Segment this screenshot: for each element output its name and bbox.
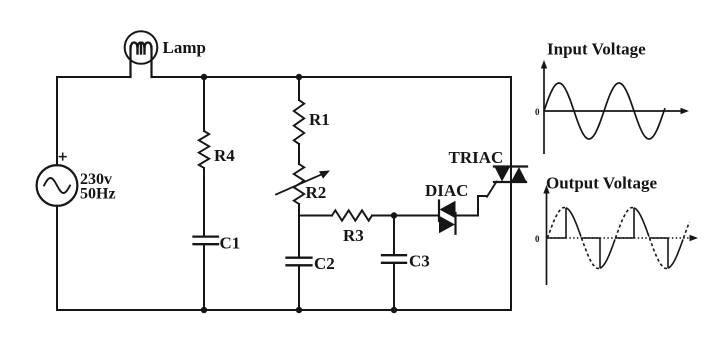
node bottom rail / C1 [201, 307, 207, 313]
output graph y-axis [546, 189, 548, 285]
svg-text:C2: C2 [314, 254, 335, 273]
wire R2 node to R3 [299, 215, 332, 217]
wire R2 to C2 node [298, 204, 300, 258]
svg-text:0: 0 [535, 234, 540, 244]
node bottom rail / C2 [296, 307, 302, 313]
svg-text:C3: C3 [409, 252, 430, 271]
svg-text:Output Voltage: Output Voltage [546, 174, 657, 193]
wire top rail left [57, 76, 131, 78]
wire right vertical (TRIAC branch) [510, 77, 512, 310]
output reference sine (dashed) [548, 208, 566, 239]
diac [439, 201, 456, 234]
svg-text:R2: R2 [306, 183, 327, 202]
output zero-level segments [548, 237, 567, 239]
triac [494, 167, 527, 183]
lamp [125, 31, 158, 77]
capacitor C3 [382, 255, 406, 263]
svg-text:C1: C1 [220, 234, 241, 253]
wire C1 bottom lead [203, 244, 205, 310]
svg-text:R1: R1 [309, 110, 330, 129]
svg-text:DIAC: DIAC [425, 181, 468, 200]
wire node to C3 [393, 216, 395, 256]
wire C3 bottom lead [393, 263, 395, 310]
resistor R1 [294, 100, 304, 144]
node bottom rail / C3 [391, 307, 397, 313]
svg-text:50Hz: 50Hz [80, 186, 116, 203]
resistor R3 [332, 210, 372, 220]
svg-text:Lamp: Lamp [163, 38, 206, 57]
svg-text:TRIAC: TRIAC [449, 148, 504, 167]
svg-text:Input Voltage: Input Voltage [547, 40, 646, 59]
output x-axis arrow [690, 235, 699, 241]
output conducting sine (solid) [566, 208, 581, 237]
node top rail / R4 [201, 74, 207, 80]
input sine wave [544, 83, 665, 139]
node top rail / R1 [296, 74, 302, 80]
output firing verticals [565, 208, 567, 238]
capacitor C2 [287, 258, 312, 266]
wire DIAC to gate step [456, 196, 488, 216]
input graph y-axis [543, 64, 545, 154]
wire R1 to R2 [298, 144, 300, 164]
wire R4 to C1 [203, 168, 205, 236]
wire left vertical lower [56, 206, 58, 310]
wire bottom rail [57, 309, 511, 311]
wire R3 to DIAC [372, 215, 438, 217]
wire gate diagonal [487, 182, 497, 197]
svg-text:R4: R4 [214, 146, 235, 165]
capacitor C1 [194, 237, 219, 245]
svg-text:R3: R3 [343, 226, 364, 245]
wire R1 top lead [298, 77, 300, 100]
wire C2 bottom lead [298, 265, 300, 310]
wire R4 top lead [203, 77, 205, 131]
resistor R4 [199, 131, 209, 168]
input y-axis arrow [541, 60, 547, 69]
input graph x-axis [544, 110, 682, 112]
svg-text:0: 0 [535, 107, 540, 117]
input x-axis arrow [681, 108, 690, 114]
output y-axis arrow [543, 185, 549, 194]
wire top rail right [152, 76, 512, 78]
potentiometer R2 [276, 164, 330, 204]
node R3 / C3 / DIAC [391, 212, 397, 218]
wire left vertical upper [56, 77, 58, 165]
output x-axis (dotted) [547, 237, 692, 239]
AC source V1 230v 50Hz [37, 153, 78, 206]
